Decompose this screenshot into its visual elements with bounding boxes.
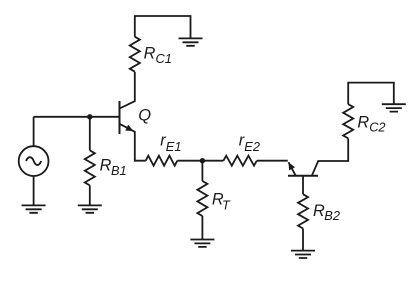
ground (top right, RC2)	[382, 104, 406, 111]
transistor Q emitter lead	[120, 124, 146, 161]
ground (below source)	[22, 205, 46, 212]
resistor RB2	[298, 194, 308, 228]
svg-text:C1: C1	[156, 51, 172, 66]
svg-text:B1: B1	[111, 163, 127, 178]
wire input row to Q base	[34, 116, 120, 118]
ground (below RT)	[190, 240, 214, 247]
resistor RT	[197, 181, 207, 216]
wire RB1 to ground	[89, 185, 91, 205]
svg-text:R: R	[144, 45, 156, 63]
wire RT to ground	[201, 216, 203, 240]
resistor rE1	[146, 156, 178, 166]
resistor RC1	[130, 37, 140, 72]
node A (junction input/RB1)	[87, 114, 92, 119]
wire node A down to RB1	[89, 117, 91, 151]
wire rE1 to node B	[177, 160, 202, 162]
wire node B down to RT	[201, 161, 203, 181]
svg-text:E1: E1	[166, 139, 182, 154]
resistor rE2	[223, 156, 256, 166]
wire rE2 to Q2 emitter	[257, 160, 288, 162]
transistor Q collector lead	[120, 72, 135, 109]
ground (below RB1)	[78, 205, 102, 212]
ac source VS	[19, 146, 49, 176]
wire node B to rE2	[202, 160, 223, 162]
transistor Q base bar	[119, 101, 121, 134]
svg-text:R: R	[357, 114, 369, 132]
transistor Q2 base bar	[288, 175, 318, 177]
wire RC2 top to ground	[348, 83, 394, 105]
wire RB2 to ground	[302, 229, 304, 251]
svg-text:R: R	[313, 202, 325, 220]
svg-text:B2: B2	[324, 208, 340, 223]
node B (junction rE1/RT/rE2)	[200, 158, 205, 163]
ground (below RB2)	[291, 251, 315, 258]
transistor Q2 emitter lead	[289, 162, 296, 176]
svg-text:R: R	[100, 157, 112, 175]
ground (top, RC1)	[179, 38, 203, 45]
svg-text:C2: C2	[369, 119, 385, 134]
svg-text:E2: E2	[244, 139, 260, 154]
transistor Q emitter arrow	[125, 125, 133, 131]
transistor Q2 emitter arrow	[289, 162, 296, 170]
wire vs-bottom to ground	[33, 176, 35, 206]
resistor RC2	[343, 104, 353, 138]
transistor Q2 collector lead	[312, 138, 348, 175]
transistor Q2 base wire down to RB2	[302, 176, 304, 194]
wire RC1 top to ground	[135, 16, 191, 38]
wire vs-top to input node row	[33, 117, 35, 146]
svg-text:T: T	[222, 197, 231, 212]
svg-text:Q: Q	[138, 107, 151, 125]
resistor RB1	[85, 150, 95, 185]
